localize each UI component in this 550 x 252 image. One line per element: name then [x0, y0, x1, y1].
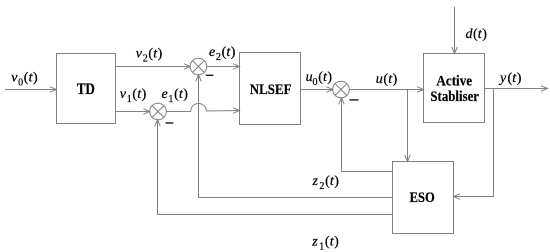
- block Active Stabliser: [424, 54, 485, 123]
- wire u branch down to ESO: [407, 90, 409, 162]
- wire v2: [116, 66, 190, 68]
- wire z feedback to u junction: [342, 98, 393, 171]
- minus sign at e2 junction: [206, 74, 214, 76]
- summing junction u: [333, 81, 350, 98]
- svg-text:y(t): y(t): [498, 71, 522, 86]
- summing junction e2: [190, 58, 207, 75]
- svg-text:Active: Active: [436, 73, 472, 89]
- wire e2 to NLSEF: [207, 66, 239, 68]
- wire z2 feedback to e2 junction: [199, 75, 393, 197]
- minus sign at u junction: [350, 99, 359, 101]
- wire v1: [116, 111, 150, 113]
- wire e1 to NLSEF with hop over z2 line: [166, 103, 239, 111]
- svg-text:z1(t): z1(t): [311, 234, 339, 252]
- wire y output: [485, 88, 548, 90]
- wire u0: [301, 89, 333, 91]
- svg-text:Stabliser: Stabliser: [430, 89, 479, 105]
- svg-text:d(t): d(t): [466, 27, 488, 42]
- svg-text:NLSEF: NLSEF: [250, 82, 292, 98]
- svg-text:e2(t): e2(t): [209, 45, 236, 63]
- wire d input: [454, 7, 456, 53]
- svg-text:v2(t): v2(t): [136, 47, 163, 65]
- block ESO: [393, 162, 454, 234]
- wire v0 input: [5, 89, 56, 91]
- block NLSEF: [240, 53, 301, 125]
- svg-text:v1(t): v1(t): [120, 87, 147, 105]
- minus sign at e1 junction: [166, 122, 174, 124]
- svg-text:z2(t): z2(t): [312, 174, 340, 192]
- svg-text:v0(t): v0(t): [11, 71, 38, 89]
- wire u: [349, 89, 423, 91]
- summing junction e1: [150, 103, 167, 120]
- svg-text:e1(t): e1(t): [162, 87, 189, 105]
- wire z1 feedback to e1 junction: [158, 120, 393, 214]
- block TD: [57, 54, 116, 124]
- wire y branch down to ESO: [454, 89, 494, 197]
- svg-text:ESO: ESO: [410, 190, 435, 206]
- svg-text:u0(t): u0(t): [306, 70, 333, 88]
- svg-text:u(t): u(t): [376, 72, 398, 87]
- svg-text:TD: TD: [77, 81, 95, 98]
